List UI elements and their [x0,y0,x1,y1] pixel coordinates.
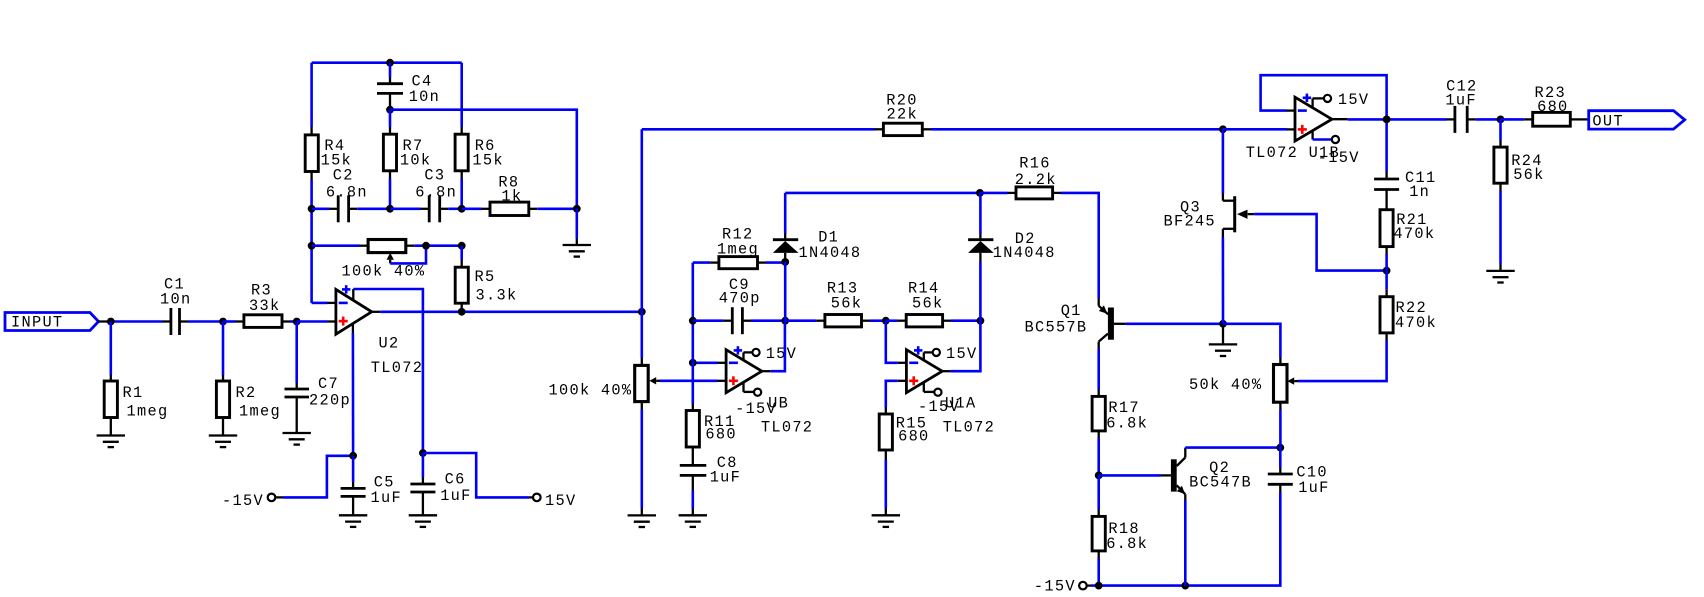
svg-text:22k: 22k [887,105,918,123]
node under C4 [386,106,394,114]
wire Q2 base [1099,474,1171,477]
svg-text:INPUT: INPUT [11,314,63,332]
ground [209,436,237,448]
wire R16 to Q1 emitter [1061,193,1099,298]
node C6 [419,449,427,457]
svg-text:-15V: -15V [1318,149,1360,167]
port INPUT [5,313,99,332]
node C9 left [689,317,697,325]
wire node C to op-amp [297,320,336,323]
node R18 bottom rail [1095,582,1103,590]
wire C1 to node B [188,320,223,323]
svg-text:1uF: 1uF [1298,479,1329,497]
capacitor C2 [312,167,390,223]
port OUT [1589,111,1685,131]
wire 50k wiper to R22 [1298,341,1387,382]
resistor R20 [875,92,932,136]
terminal -15V left [222,492,283,510]
terminal -15V bottom [1034,578,1091,596]
svg-text:15V: 15V [1338,91,1369,109]
svg-text:TL072: TL072 [943,418,995,436]
svg-text:6.8k: 6.8k [1106,535,1148,553]
wire node A down [110,322,113,376]
svg-text:1meg: 1meg [717,241,759,259]
svg-text:33k: 33k [249,297,280,315]
svg-text:1N4048: 1N4048 [993,244,1056,262]
terminal 15V right [529,492,576,510]
capacitor C9 [693,276,785,334]
resistor R15 [879,407,929,515]
svg-text:1uF: 1uF [371,489,402,507]
ground [1209,324,1237,356]
node output C11 [1383,116,1391,124]
capacitor C3 [390,167,462,223]
wire R3 to node C [291,320,297,323]
svg-text:U1A: U1A [945,395,976,413]
svg-text:-15V: -15V [1034,578,1076,596]
node R17 R18 base [1095,472,1103,480]
resistor R21 [1380,203,1435,271]
wire U1A plus to R15 [886,381,898,407]
svg-text:1meg: 1meg [127,403,169,421]
node top rail [386,59,394,67]
potentiometer 100k 40% top [312,240,462,281]
svg-text:10n: 10n [409,88,440,106]
node C [293,318,301,326]
wire R23 to OUT [1579,118,1589,120]
capacitor C4 [377,63,440,110]
transistor Q1 [1025,298,1126,349]
wire INPUT to node A [99,320,171,322]
node C3 row R6 [458,205,466,213]
svg-text:15V: 15V [946,345,977,363]
svg-text:R16: R16 [1019,154,1050,172]
wire U1B feedback loop [1261,75,1387,119]
wire C4 row to right [390,110,577,209]
wire U2 output [380,310,642,313]
wire U2 minus input [312,302,328,305]
wire U2 V+ to C6 node [353,289,423,453]
node D1 R12 [781,258,789,266]
diode D2 [968,193,1056,321]
node A [107,318,115,326]
resistor R11 [686,404,737,459]
svg-text:2.2k: 2.2k [1015,171,1057,189]
capacitor C12 [1445,77,1477,132]
svg-text:UB: UB [768,395,789,413]
wire node C down [295,322,298,384]
svg-text:680: 680 [898,428,929,446]
node pot wiper [422,242,430,250]
resistor R5 [455,246,517,312]
resistor R1 [104,375,168,436]
svg-text:470k: 470k [1395,314,1437,332]
svg-text:1n: 1n [1409,183,1430,201]
node R14 D2 [977,317,985,325]
svg-text:Q1: Q1 [1061,302,1082,320]
node B [219,318,227,326]
node R20 rail Q3 [1219,125,1227,133]
svg-text:TL072: TL072 [371,359,423,377]
svg-text:56k: 56k [831,295,862,313]
op-amp U1B [1246,91,1370,167]
wire C12 to node [1476,118,1501,121]
potentiometer 100k 40% mid [549,312,661,516]
svg-text:1uF: 1uF [710,468,741,486]
svg-text:100k 40%: 100k 40% [549,382,633,400]
capacitor C1 [160,276,191,336]
svg-text:R1: R1 [123,384,144,402]
svg-text:1meg: 1meg [239,403,281,421]
node C2 row R7 [386,205,394,213]
wire node B to R3 [223,320,244,323]
node on rail pot row [308,242,316,250]
op-amp U1A [898,345,995,436]
svg-text:6.8n: 6.8n [326,183,368,201]
resistor R12 [693,226,785,269]
wire node down to Q3 drain [1222,129,1225,200]
wire Q3 source down [1222,238,1225,324]
resistor R2 [216,375,281,436]
wire C6 node to 15V [423,453,529,497]
resistor R14 [886,280,981,327]
ground [283,433,311,445]
wire Q2 emitter down [1184,501,1187,586]
svg-text:10n: 10n [160,291,191,309]
svg-text:100k 40%: 100k 40% [342,263,426,281]
svg-text:470k: 470k [1393,225,1435,243]
svg-text:OUT: OUT [1592,112,1623,130]
transistor Q3 [1164,196,1255,237]
resistor R17 [1092,390,1148,476]
wire U2 V- to C5 node [352,333,355,456]
diode D1 [773,229,861,263]
svg-text:1uF: 1uF [440,487,471,505]
resistor R22 [1380,271,1437,341]
node R5 output line [458,308,466,316]
ground [628,515,656,527]
wire Q1 collector to R17 [1097,349,1100,390]
node U2 output branch [638,308,646,316]
capacitor C6 [410,453,471,515]
svg-text:470p: 470p [719,289,761,307]
capacitor C10 [1268,448,1330,498]
svg-text:R5: R5 [475,268,496,286]
svg-text:680: 680 [705,426,736,444]
resistor R6 [455,63,504,209]
potentiometer 50k 40% [1189,358,1298,448]
svg-text:R2: R2 [236,384,257,402]
wire U1B output [1348,118,1447,121]
node Q1 base gnd 50k [1219,320,1227,328]
wire Q3 gate to R21 R22 node [1254,214,1386,271]
transistor Q2 [1171,448,1252,501]
wire U1B minus input [693,361,718,364]
wire branch up to R20 rail [640,129,643,311]
resistor R13 [785,280,886,327]
wire bottom rail [1091,493,1280,586]
resistor R7 [383,110,431,209]
node R13 R14 [882,317,890,325]
node R8 right [573,205,581,213]
capacitor C8 [680,454,741,515]
resistor R23 [1501,84,1580,126]
svg-text:6.8n: 6.8n [415,183,457,201]
wire R13/R14 node to U1A minus [886,321,907,363]
node C9 right [781,317,789,325]
resistor R24 [1494,119,1545,271]
ground [679,515,707,527]
ground [563,245,591,257]
wire D1 vertical [784,193,787,321]
svg-text:1k: 1k [501,187,522,205]
svg-text:50k 40%: 50k 40% [1189,376,1262,394]
wire D rail [785,192,980,195]
svg-text:15k: 15k [472,151,503,169]
node U1B minus [689,359,697,367]
wire -15V to C5 node [283,456,353,498]
resistor R3 [244,282,291,328]
svg-text:BC547B: BC547B [1189,473,1252,491]
capacitor C11 [1374,119,1436,202]
node D rail D2 [976,189,984,197]
wire Q1 base [1126,322,1223,325]
wire node B down [222,322,225,376]
svg-text:U2: U2 [379,335,400,353]
wire left feedback rail [312,63,462,303]
ground [97,436,125,448]
svg-text:15V: 15V [545,492,576,510]
ground [409,515,437,527]
resistor R8 [462,174,577,216]
ground [1486,271,1514,283]
resistor R4 [305,127,352,180]
svg-text:6.8k: 6.8k [1106,415,1148,433]
node on rail C2 row [308,205,316,213]
svg-text:56k: 56k [912,295,943,313]
svg-text:C7: C7 [318,375,339,393]
svg-text:680: 680 [1537,98,1568,116]
ground [872,515,900,527]
wire wiper to U1B plus [660,379,726,382]
node pot row right [458,242,466,250]
capacitor C7 [285,375,351,433]
svg-text:TL072: TL072 [761,419,813,437]
wire R20 rail to U1B plus [1223,128,1295,131]
svg-text:C3: C3 [424,167,445,185]
svg-text:C2: C2 [333,167,354,185]
resistor R16 [980,154,1061,199]
resistor R18 [1092,475,1148,585]
svg-text:-15V: -15V [222,492,264,510]
svg-text:220p: 220p [309,391,351,409]
wire R20 rail right [931,128,1223,131]
capacitor C5 [341,456,402,516]
node Q2 emitter rail [1181,582,1189,590]
svg-text:1uF: 1uF [1445,92,1476,110]
node R21 R22 [1383,267,1391,275]
wire to ground [575,209,578,245]
wire node to 50k pot [1223,324,1280,358]
op-amp U1B mid [718,345,814,437]
svg-text:C6: C6 [445,471,466,489]
node R24 [1497,116,1505,124]
wire vertical R12/C9/R11 [691,263,694,404]
node C10 top [1276,444,1284,452]
svg-text:1N4048: 1N4048 [799,244,862,262]
ground [339,515,367,527]
svg-text:BF245: BF245 [1164,213,1216,231]
wire Q2 collector [1185,446,1280,449]
svg-text:15V: 15V [766,345,797,363]
svg-text:3.3k: 3.3k [476,286,518,304]
svg-text:BC557B: BC557B [1025,319,1088,337]
svg-text:56k: 56k [1513,166,1544,184]
wire U1A output up [951,321,981,372]
wire U1B output up [770,321,785,372]
node C5 [349,452,357,460]
wire R20 rail left [642,128,875,131]
op-amp U2 [328,285,424,377]
